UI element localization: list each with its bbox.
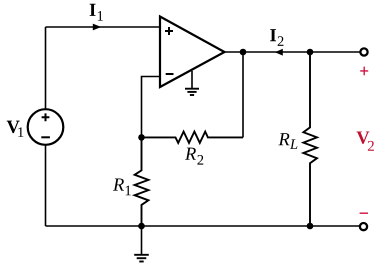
label V1	[7, 121, 24, 137]
node output junction	[240, 49, 247, 56]
label RL	[278, 133, 297, 149]
label I1	[90, 4, 103, 21]
ground under op-amp	[185, 71, 199, 95]
resistor RL	[303, 52, 317, 226]
wire from - input to feedback node	[142, 77, 161, 138]
resistor R1	[135, 137, 149, 226]
node RL top junction	[307, 49, 314, 56]
label R2	[185, 148, 203, 165]
V1 plus polarity mark	[42, 113, 50, 121]
terminal top open circle	[360, 48, 367, 55]
label V2	[357, 131, 374, 150]
resistor R2	[142, 132, 244, 143]
ground bottom	[134, 226, 149, 262]
wire op-amp output to right terminal	[225, 51, 360, 53]
arrow I2 current direction	[275, 49, 283, 56]
node RL bottom junction	[307, 223, 314, 230]
wire left vertical below V1	[45, 145, 47, 226]
node bottom ground junction	[138, 223, 145, 230]
terminal bottom open circle	[360, 223, 367, 230]
label R1	[113, 178, 131, 195]
arrow I1 current direction	[93, 24, 101, 31]
wire bottom rail	[46, 225, 360, 227]
wire left vertical above V1	[45, 27, 47, 109]
V2 plus polarity mark	[360, 67, 368, 76]
op-amp - input mark	[166, 73, 174, 75]
node A feedback junction	[138, 134, 145, 141]
op-amp + input mark	[165, 27, 173, 35]
wire top from V1 to op-amp + input	[46, 26, 160, 28]
label I2	[270, 29, 283, 46]
op-amp U1	[160, 17, 225, 88]
V2 minus polarity mark	[360, 212, 368, 214]
V1 minus polarity mark	[41, 136, 50, 138]
voltage source V1 circle	[28, 109, 64, 145]
wire feedback right vertical up to output	[242, 52, 244, 137]
